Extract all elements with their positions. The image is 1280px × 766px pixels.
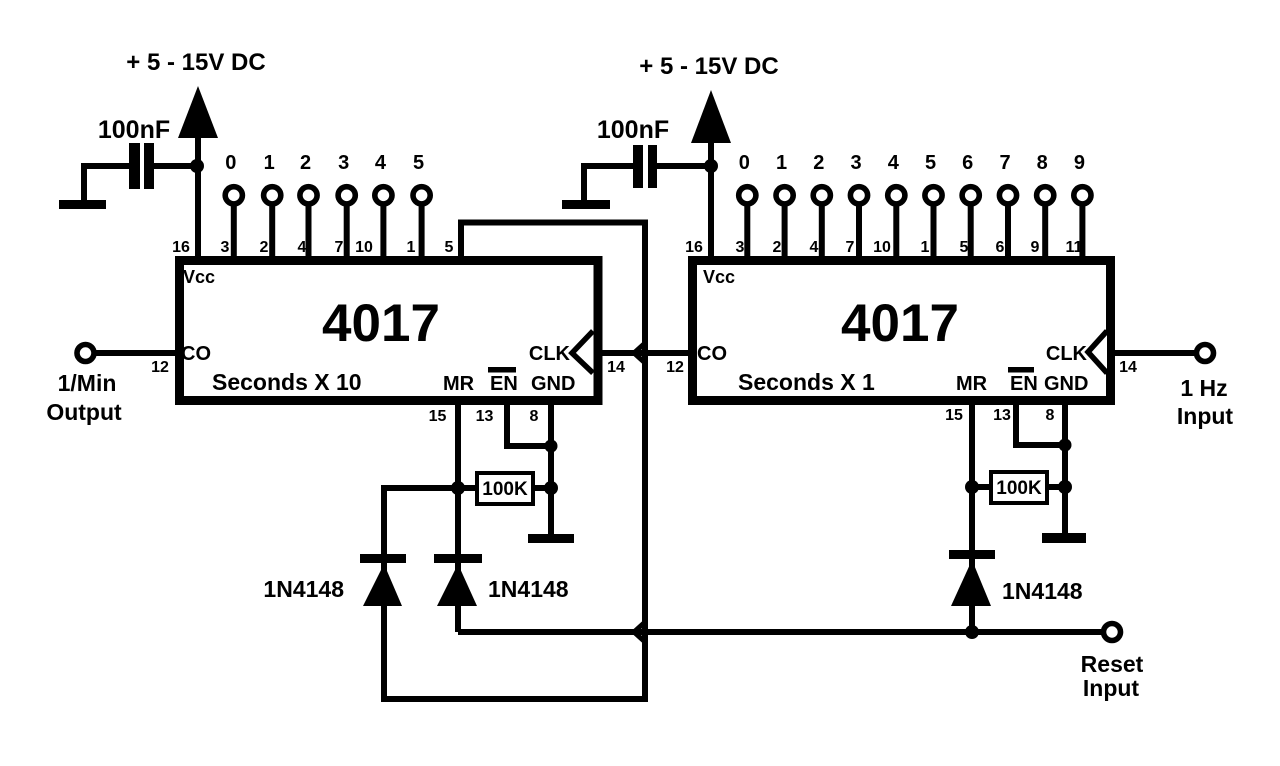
terminal output 4 (left IC) (375, 187, 392, 204)
capacitor C1 100nF (129, 143, 154, 189)
EN overline (right IC) (1008, 367, 1034, 373)
svg-text:4: 4 (810, 239, 819, 256)
svg-text:3: 3 (221, 239, 230, 256)
ground (left power) (59, 200, 106, 209)
terminal output 3 (left IC) (338, 187, 355, 204)
svg-text:7: 7 (846, 239, 855, 256)
junction R2 right / GND wire (1058, 480, 1072, 494)
svg-text:1: 1 (264, 152, 275, 174)
wire capacitor to ground (left) (84, 166, 129, 202)
wire reset line (458, 629, 1103, 635)
wire through diode D1 (381, 556, 387, 608)
power supply symbol (left) (178, 86, 218, 138)
wire EN pin13 (right IC) (1016, 400, 1065, 445)
svg-text:4017: 4017 (841, 294, 959, 353)
svg-text:4: 4 (375, 152, 387, 174)
terminal output 1 (left IC) (264, 187, 281, 204)
wire MR pin15 (right IC) (969, 400, 975, 487)
diode D3 1N4148 (949, 550, 995, 606)
ground (right power) (562, 200, 610, 209)
wire D3 anode to reset line (969, 605, 975, 632)
wire right IC CO pin12 to left IC CLK pin14 (602, 350, 690, 356)
wire Vcc rail (left) (195, 138, 201, 258)
resistor R1 100K (477, 473, 533, 504)
svg-text:8: 8 (530, 408, 539, 425)
terminal 1 Hz Input (1197, 345, 1214, 362)
svg-text:13: 13 (993, 407, 1011, 424)
wire R2 right lead (1046, 484, 1065, 490)
svg-text:100K: 100K (482, 479, 528, 500)
svg-text:CO: CO (181, 343, 211, 365)
ground (right IC GND) (1042, 533, 1086, 543)
svg-text:3: 3 (338, 152, 349, 174)
svg-text:14: 14 (607, 359, 625, 376)
svg-text:Output: Output (46, 399, 122, 425)
wire output 4 to pin (left IC) (380, 205, 386, 258)
wire MR pin15 (left IC) (455, 400, 461, 488)
svg-text:100K: 100K (996, 478, 1042, 499)
signal direction arrow on reset line (634, 623, 644, 641)
junction R1 right / GND wire (544, 481, 558, 495)
svg-text:2: 2 (813, 152, 824, 174)
svg-text:EN: EN (1010, 373, 1038, 395)
svg-text:14: 14 (1119, 359, 1137, 376)
wire GND pin8 (right IC) (1062, 400, 1068, 535)
svg-text:1: 1 (407, 239, 416, 256)
svg-text:+ 5 - 15V DC: + 5 - 15V DC (126, 49, 265, 76)
junction Vcc/capacitor (right) (704, 159, 718, 173)
svg-text:CO: CO (697, 343, 727, 365)
wire output 2 to pin (left IC) (306, 205, 312, 258)
wire pin5 stub (left IC output 6) (458, 223, 464, 259)
wire capacitor to Vcc rail (right) (657, 163, 711, 169)
svg-text:2: 2 (260, 239, 269, 256)
svg-text:CLK: CLK (1046, 343, 1088, 365)
svg-text:EN: EN (490, 373, 518, 395)
svg-text:10: 10 (355, 239, 373, 256)
wire output 6 to pin (right IC) (968, 205, 974, 258)
svg-text:Seconds X 1: Seconds X 1 (738, 369, 875, 395)
wire output 7 to pin (right IC) (1005, 205, 1011, 258)
wire output 5 to pin (left IC) (419, 205, 425, 258)
terminal output 7 (right IC) (999, 187, 1016, 204)
terminal output 4 (right IC) (888, 187, 905, 204)
wire output 2 to pin (right IC) (819, 205, 825, 258)
svg-text:11: 11 (1066, 239, 1083, 256)
svg-text:GND: GND (1044, 373, 1088, 395)
svg-text:MR: MR (956, 373, 988, 395)
op IC U1 4017 body (Seconds X 10) (180, 261, 599, 401)
wire GND pin8 (left IC) (548, 400, 554, 536)
terminal output 9 (right IC) (1074, 187, 1091, 204)
wire pin5 loop vertical (642, 220, 648, 703)
svg-text:5: 5 (413, 152, 424, 174)
wire R1 left lead (458, 485, 478, 491)
svg-text:GND: GND (531, 373, 575, 395)
terminal output 5 (right IC) (925, 187, 942, 204)
wire capacitor to ground (right) (584, 166, 633, 202)
junction Vcc/capacitor (left) (190, 159, 204, 173)
wire CO pin12 to 1/Min terminal (94, 350, 177, 356)
svg-text:16: 16 (172, 239, 190, 256)
svg-text:4: 4 (298, 239, 307, 256)
svg-text:100nF: 100nF (597, 116, 669, 144)
svg-text:7: 7 (335, 239, 344, 256)
junction MR/resistor/diodes (left) (451, 481, 465, 495)
wire output 4 to pin (right IC) (893, 205, 899, 258)
svg-text:1N4148: 1N4148 (488, 576, 569, 602)
svg-text:Input: Input (1083, 675, 1140, 701)
wire Vcc rail (right) (708, 143, 714, 258)
svg-text:Vcc: Vcc (183, 267, 215, 287)
wire output 9 to pin (right IC) (1079, 205, 1085, 258)
svg-text:5: 5 (445, 239, 454, 256)
diode D2 1N4148 (434, 554, 482, 606)
wire CLK pin14 to 1Hz terminal (1113, 350, 1197, 356)
wire output 5 to pin (right IC) (931, 205, 937, 258)
svg-text:Seconds X 10: Seconds X 10 (212, 369, 362, 395)
svg-text:15: 15 (945, 407, 963, 424)
terminal output 6 (right IC) (962, 187, 979, 204)
svg-text:1: 1 (921, 239, 930, 256)
terminal output 1 (right IC) (776, 187, 793, 204)
wire D1 cathode to MR junction (384, 488, 458, 555)
ground (left IC GND) (528, 534, 574, 543)
op IC U2 4017 body (Seconds X 1) (693, 261, 1111, 401)
wire output 0 to pin (right IC) (744, 205, 750, 258)
wire MR junction to diode D3 (969, 487, 975, 551)
junction MR/resistor (right) (965, 480, 979, 494)
svg-text:Vcc: Vcc (703, 267, 735, 287)
terminal output 2 (right IC) (813, 187, 830, 204)
wire output 0 to pin (left IC) (231, 205, 237, 258)
svg-text:4: 4 (888, 152, 900, 174)
wire output 3 to pin (left IC) (344, 205, 350, 258)
svg-text:2: 2 (773, 239, 782, 256)
capacitor C2 100nF (633, 145, 657, 188)
wire R1 right lead (532, 485, 551, 491)
signal direction arrow on clock wire (634, 344, 644, 362)
resistor R2 100K (991, 472, 1047, 503)
clock input triangle (left IC) (572, 331, 593, 373)
diode D1 1N4148 (360, 554, 406, 606)
svg-text:0: 0 (225, 152, 236, 174)
terminal output 2 (left IC) (300, 187, 317, 204)
svg-text:9: 9 (1031, 239, 1040, 256)
wire D2 anode to reset line (455, 605, 461, 632)
junction EN/GND (left) (545, 440, 558, 453)
svg-text:13: 13 (476, 408, 494, 425)
svg-text:3: 3 (850, 152, 861, 174)
svg-text:100nF: 100nF (98, 116, 170, 144)
svg-text:8: 8 (1046, 407, 1055, 424)
svg-text:1N4148: 1N4148 (263, 576, 344, 602)
junction reset/diode D3 (965, 625, 979, 639)
wire output 8 to pin (right IC) (1042, 205, 1048, 258)
wire output 3 to pin (right IC) (856, 205, 862, 258)
svg-text:1/Min: 1/Min (58, 370, 117, 396)
svg-text:8: 8 (1037, 152, 1048, 174)
svg-text:7: 7 (999, 152, 1010, 174)
svg-text:6: 6 (962, 152, 973, 174)
svg-text:1N4148: 1N4148 (1002, 578, 1083, 604)
svg-text:0: 0 (739, 152, 750, 174)
terminal output 5 (left IC) (413, 187, 430, 204)
svg-text:1 Hz: 1 Hz (1180, 375, 1227, 401)
svg-text:5: 5 (925, 152, 936, 174)
svg-text:16: 16 (685, 239, 703, 256)
svg-text:5: 5 (960, 239, 969, 256)
svg-text:12: 12 (666, 359, 684, 376)
power supply symbol (right) (691, 90, 731, 143)
svg-text:10: 10 (873, 239, 891, 256)
wire output 1 to pin (right IC) (782, 205, 788, 258)
svg-text:9: 9 (1074, 152, 1085, 174)
wire bottom return to diode D1 (381, 696, 648, 702)
EN overline (left IC) (488, 367, 516, 373)
svg-text:4017: 4017 (322, 294, 440, 353)
svg-text:1: 1 (776, 152, 787, 174)
wire output 1 to pin (left IC) (269, 205, 275, 258)
wire MR junction to diode D2 (455, 488, 461, 555)
svg-text:12: 12 (151, 359, 169, 376)
svg-text:2: 2 (300, 152, 311, 174)
svg-text:3: 3 (736, 239, 745, 256)
wire diode D1 anode lead (381, 605, 387, 702)
terminal output 0 (right IC) (739, 187, 756, 204)
svg-text:+ 5 - 15V DC: + 5 - 15V DC (639, 53, 778, 80)
wire R2 left lead (972, 484, 992, 490)
junction EN/GND (right) (1059, 439, 1072, 452)
svg-text:MR: MR (443, 373, 475, 395)
svg-text:Reset: Reset (1081, 651, 1144, 677)
terminal output 0 (left IC) (225, 187, 242, 204)
clock input triangle (right IC) (1088, 331, 1107, 373)
svg-text:6: 6 (996, 239, 1005, 256)
wire through diode D3 (969, 552, 975, 608)
terminal Reset Input (1104, 624, 1121, 641)
wire EN pin13 (left IC) (507, 400, 551, 446)
wire through diode D2 (455, 556, 461, 608)
terminal 1/Min Output (77, 345, 94, 362)
svg-text:Input: Input (1177, 403, 1234, 429)
wire pin5 loop horizontal top (458, 220, 645, 226)
svg-text:15: 15 (429, 408, 447, 425)
svg-text:CLK: CLK (529, 343, 571, 365)
wire capacitor to Vcc rail (left) (154, 163, 197, 169)
terminal output 8 (right IC) (1037, 187, 1054, 204)
terminal output 3 (right IC) (850, 187, 867, 204)
